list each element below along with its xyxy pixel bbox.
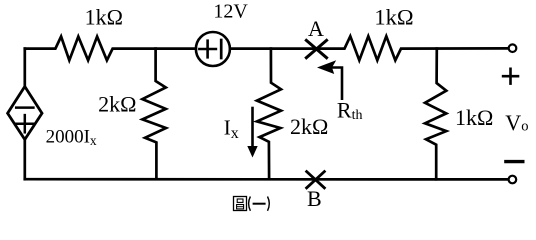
caption dash (one): [253, 203, 266, 205]
resistor R5 1kΩ right vertical branch with connecting wires: [425, 49, 446, 180]
wire left vertical above source: [23, 49, 26, 88]
voltage source 12V circle: [196, 32, 230, 66]
terminal top-right: [509, 44, 517, 52]
Ix arrowhead: [247, 146, 257, 158]
svg-text:2kΩ: 2kΩ: [290, 114, 328, 139]
dependent source plus sign: [16, 122, 33, 125]
caption figure glyph box: [234, 197, 247, 211]
resistor R1 1kΩ top-left, with top wire from left corner to 12V source: [25, 37, 196, 61]
resistor R3 2kΩ first vertical branch with connecting wires: [142, 49, 166, 180]
svg-text:A: A: [308, 16, 324, 41]
svg-text:1kΩ: 1kΩ: [455, 105, 493, 130]
resistor R2 1kΩ top-right, with wire from 12V source through node A to output terminal: [230, 36, 508, 60]
Rth arrow line: [331, 68, 342, 99]
svg-text:12V: 12V: [213, 0, 248, 22]
svg-text:Ix: Ix: [224, 115, 239, 141]
Ix arrow line: [251, 108, 254, 148]
wire bottom rail: [25, 178, 508, 181]
dependent source minus sign: [16, 106, 33, 109]
svg-text:1kΩ: 1kΩ: [374, 5, 413, 30]
resistor R4 2kΩ middle vertical branch with connecting wires: [257, 49, 281, 180]
svg-text:B: B: [307, 186, 322, 211]
svg-text:2kΩ: 2kΩ: [98, 92, 136, 117]
output plus sign: [502, 68, 520, 85]
node B X mark: [306, 171, 326, 189]
wire left vertical below source: [23, 140, 26, 179]
output minus sign: [504, 160, 524, 163]
svg-text:2000Ix: 2000Ix: [46, 127, 97, 149]
caption parenthesis left: [249, 197, 251, 211]
caption parenthesis right: [268, 197, 270, 211]
dependent source 2000Ix diamond: [8, 87, 42, 140]
svg-text:Rth: Rth: [337, 97, 363, 123]
Rth arrowhead: [317, 60, 336, 74]
svg-text:Vo: Vo: [505, 110, 528, 135]
voltage source bar: [220, 40, 223, 58]
svg-text:1kΩ: 1kΩ: [85, 4, 123, 29]
node A X mark: [305, 39, 328, 58]
voltage source plus sign: [199, 48, 216, 51]
terminal bottom-right: [509, 176, 517, 184]
